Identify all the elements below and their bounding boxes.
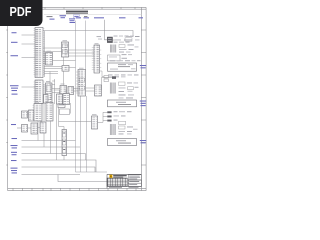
wire: bus right of U4	[52, 79, 55, 104]
IC U12	[63, 94, 70, 105]
svg-text:PDF: PDF	[10, 5, 32, 19]
IC U3	[46, 53, 53, 66]
drawing number box	[128, 175, 141, 180]
wire: U4 to U7	[52, 89, 60, 93]
IC U14e	[40, 122, 46, 133]
U2 pin stubs	[34, 82, 45, 102]
wire: inter-block vertical links	[28, 57, 71, 128]
wire: U18 to J4 stubs	[98, 112, 108, 122]
wire: into U18 from left	[59, 120, 92, 122]
IC U14c	[29, 110, 35, 121]
IC U4	[46, 83, 53, 103]
IC U15	[33, 104, 42, 122]
IC U9	[44, 95, 49, 104]
wires: left stubs into U1/U2	[22, 35, 36, 87]
IC U1	[35, 28, 43, 78]
IC U8	[68, 87, 74, 95]
IC U5	[62, 42, 69, 57]
title block	[107, 174, 141, 188]
wire: stubs below U3	[44, 66, 62, 73]
connector J4 stubs	[107, 111, 111, 121]
right cluster 3 small parts	[108, 82, 139, 107]
bottom row	[107, 185, 141, 187]
IC U18	[92, 116, 98, 129]
IC U7	[60, 86, 67, 100]
IC U19	[92, 45, 102, 73]
net label (blue) cluster 2	[140, 65, 147, 68]
left margin net labels (blue)	[10, 32, 19, 173]
wire: vertical bus x85.5	[85, 21, 87, 70]
title block grid	[107, 178, 127, 186]
IC U10	[46, 103, 53, 122]
connector stubs right of U19	[100, 71, 109, 82]
wire: vertical droppers	[38, 104, 86, 160]
header table rule	[44, 14, 141, 16]
PDF badge	[0, 0, 43, 26]
wire: U6 right	[69, 67, 76, 69]
IC U14d	[31, 123, 38, 134]
connector below U7	[58, 100, 65, 108]
wire: bottom bus comb	[17, 128, 107, 182]
wire: vertical bus x75.5	[76, 21, 108, 173]
connector J2	[102, 76, 117, 90]
connector J1	[107, 37, 115, 43]
terminal strip X1	[62, 130, 67, 156]
wire: U8 to U16	[74, 89, 79, 92]
wire: U3 right pin bus	[53, 59, 76, 61]
IC U14a	[22, 111, 28, 118]
net label (blue) cluster 4	[140, 140, 147, 143]
right cluster 4 small parts	[108, 111, 138, 145]
wire: U2 to U4	[43, 85, 46, 95]
ref designator marks	[35, 24, 99, 115]
junction box below U7	[60, 109, 70, 115]
U1 pin stubs	[34, 29, 45, 75]
wire: U1 right-side bus	[43, 31, 62, 77]
sheet background	[0, 0, 149, 198]
company name text	[113, 175, 127, 176]
IC U2	[35, 80, 43, 104]
right cluster 1 small parts	[97, 36, 140, 61]
IC U16	[76, 70, 86, 97]
net label (blue) cluster 3	[140, 101, 147, 107]
IC U6	[62, 66, 69, 72]
wire: U5 to cluster R	[69, 50, 95, 56]
sheet title text	[66, 11, 88, 13]
wire: vertical bus x80.5/x86.5 below U16	[81, 96, 87, 172]
wire: link to terminal strip	[59, 108, 64, 130]
logo	[109, 175, 112, 178]
right cluster 2 small parts	[108, 60, 141, 77]
IC U11	[57, 94, 63, 104]
wire: U16 to U17	[86, 88, 95, 91]
IC U17	[95, 85, 102, 96]
IC U14b	[22, 125, 28, 133]
wire: long top bus from U1 to right cluster	[43, 20, 133, 40]
header row labels	[47, 15, 144, 23]
